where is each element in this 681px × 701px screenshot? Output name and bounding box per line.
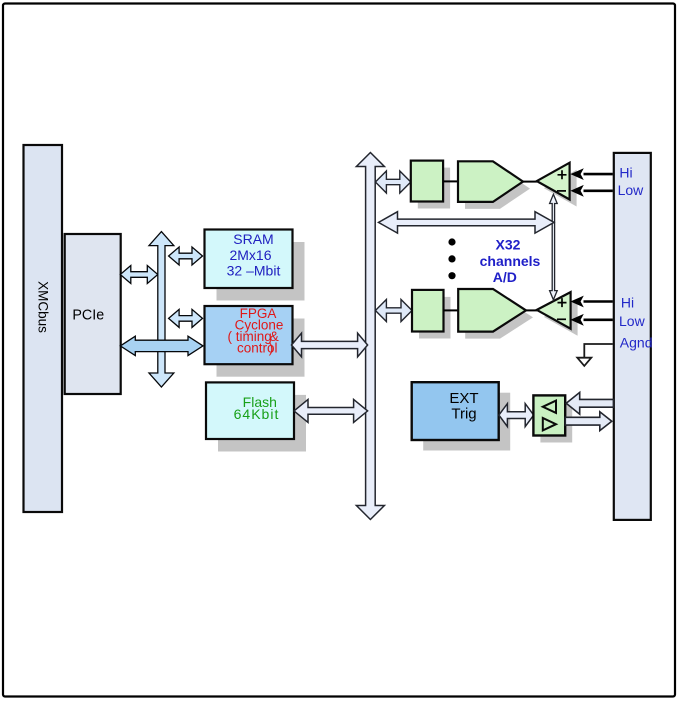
arrow rail-buffer (trig in) <box>566 392 613 414</box>
SRAM block <box>205 230 293 289</box>
plus2 <box>558 298 567 307</box>
sample link (thin vertical double arrow) <box>550 194 558 299</box>
buffer output gate <box>543 418 556 430</box>
arrow FPGA-bus <box>292 333 368 357</box>
arrow bus-channel2 <box>375 300 412 322</box>
arrow Flash-bus <box>294 399 368 422</box>
XMCbus connector <box>24 145 63 512</box>
wire amp2-comp2 <box>526 309 537 311</box>
bus arrow PCIe-cross <box>120 266 158 284</box>
bus arrow cross-SRAM <box>169 247 203 265</box>
svg-text:A/D: A/D <box>493 269 517 285</box>
svg-text:Agnd: Agnd <box>620 335 653 351</box>
central data bus (vertical double arrow) <box>356 153 384 520</box>
svg-text:32 –Mbit: 32 –Mbit <box>227 262 281 278</box>
plus1 <box>558 170 567 179</box>
cross vertical bus arrow <box>149 232 174 387</box>
wire amp1-comp1 <box>523 181 537 183</box>
wide bus arrow PCIe-FPGA <box>120 336 203 355</box>
comparator1 <box>537 163 570 200</box>
arrow buffer-rail (trig out) <box>565 412 612 431</box>
input Low ch2 <box>584 319 613 322</box>
channel data bus (long horizontal double arrow) <box>379 212 555 233</box>
EXT Trig block <box>412 382 499 440</box>
Flash block <box>206 382 294 439</box>
svg-text:Low: Low <box>618 182 645 198</box>
minus1 <box>557 190 566 192</box>
svg-text:): ) <box>269 341 274 356</box>
buffer input gate <box>543 401 556 413</box>
input Low ch1 <box>584 190 613 193</box>
node dots (x32 channels ellipsis) <box>448 238 455 245</box>
amplifier2 (mux) <box>458 289 526 332</box>
input Hi ch1 <box>584 173 613 176</box>
svg-text:XMCbus: XMCbus <box>36 281 51 333</box>
input Hi ch2 <box>584 300 613 303</box>
FPGA block <box>205 306 293 364</box>
channel1 input block <box>411 161 443 202</box>
svg-text:Hi: Hi <box>619 165 632 181</box>
svg-text:2Mx16: 2Mx16 <box>229 247 271 263</box>
shadows <box>217 168 578 452</box>
analog ground symbol <box>584 344 613 358</box>
PCIe block <box>65 234 121 394</box>
minus2 <box>557 318 566 320</box>
svg-text:Hi: Hi <box>621 294 634 310</box>
svg-text:SRAM: SRAM <box>233 231 273 247</box>
wire box1-amp1 <box>443 180 458 182</box>
amplifier1 (mux) <box>458 161 523 202</box>
bus arrow cross-FPGA <box>169 309 203 327</box>
svg-text:Trig: Trig <box>451 405 476 422</box>
wire box2-amp2 <box>444 309 459 311</box>
trigger buffer block <box>533 395 565 435</box>
arrow bus-channel1 <box>375 171 410 193</box>
analog I/O connector rail <box>614 153 651 520</box>
svg-text:Low: Low <box>619 313 646 329</box>
svg-text:64Kbit: 64Kbit <box>234 406 280 422</box>
svg-text:X32: X32 <box>496 237 521 253</box>
comparator2 <box>537 292 571 329</box>
svg-text:PCIe: PCIe <box>72 308 104 324</box>
svg-text:channels: channels <box>480 253 541 269</box>
label X32 channels A/D <box>480 237 541 285</box>
channel2 input block <box>412 290 444 332</box>
arrow EXT-buffer <box>499 404 534 427</box>
